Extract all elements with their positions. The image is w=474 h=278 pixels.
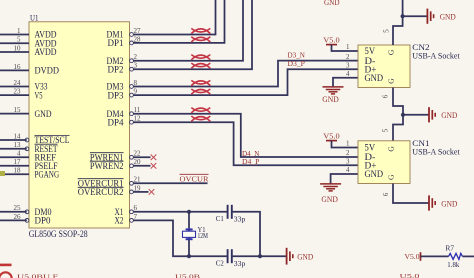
junction shield mid (401, 113, 405, 117)
wire CN2 shield pin5 to top GND (382, 0, 402, 45)
svg-text:5V: 5V (365, 143, 376, 153)
svg-text:OVCUR: OVCUR (180, 174, 209, 183)
crystal Y1 12M (183, 225, 209, 240)
svg-text:G: G (387, 146, 396, 152)
svg-text:6: 6 (382, 94, 390, 98)
wire V5.0 to CN2 pin1 (332, 45, 359, 51)
svg-text:GND: GND (322, 95, 339, 104)
wire GND p15 (0, 113, 29, 115)
wire OVERCUR1 / OVCUR (134, 182, 208, 184)
svg-text:12M: 12M (198, 231, 209, 240)
svg-text:1: 1 (346, 140, 350, 148)
wire C2 to GND (232, 255, 287, 257)
svg-text:5V: 5V (365, 46, 376, 56)
svg-text:GND: GND (365, 73, 384, 83)
svg-text:GND: GND (321, 195, 338, 204)
wire DM0 p25 (0, 211, 27, 213)
svg-text:33p: 33p (234, 259, 246, 268)
svg-text:DVDD: DVDD (35, 67, 60, 77)
svg-text:3: 3 (346, 158, 350, 166)
svg-text:D4_P: D4_P (242, 157, 259, 166)
svg-text:GND: GND (440, 13, 456, 22)
svg-text:1: 1 (346, 43, 350, 51)
svg-text:DP4: DP4 (108, 118, 124, 128)
net label stub PGANG (cropped) (0, 171, 5, 176)
cropped component bottom-left (0, 264, 12, 278)
svg-text:PWREN2: PWREN2 (90, 162, 124, 172)
power port V5.0 (CN2) (323, 35, 340, 44)
wire DP0 p26 (0, 219, 27, 221)
IC U1 GL850G SSOP-28 (14, 13, 142, 239)
power port V5.0 (CN1) (323, 131, 340, 140)
svg-text:GND: GND (441, 199, 457, 208)
connector CN1 USB-A Socket (346, 139, 460, 183)
svg-text:V5.0: V5.0 (323, 131, 340, 140)
wire V33 p24 (0, 86, 29, 88)
wire DP3 / D3_P to CN2 D+ (134, 69, 359, 95)
ferrite bead FB7 (191, 108, 210, 113)
svg-text:4: 4 (346, 166, 350, 174)
svg-text:AVDD: AVDD (35, 48, 57, 58)
cropped text bottom-left (17, 273, 59, 278)
wire DP4 / D4_P to CN1 D+ (134, 122, 359, 165)
ferrite bead FB1 (191, 28, 210, 33)
svg-text:U5.0BU F: U5.0BU F (17, 273, 59, 278)
ground GND top right (427, 9, 455, 24)
ferrite bead FB4 (191, 63, 210, 68)
svg-text:D3_P: D3_P (288, 59, 305, 68)
net label D3_N (288, 51, 306, 60)
svg-text:G: G (387, 49, 396, 55)
wire DP2 to top (134, 0, 253, 69)
junction shield top (401, 14, 405, 18)
wire C1 right (232, 212, 260, 256)
wire DM2 to top (134, 0, 244, 61)
wire to top-right GND (403, 15, 428, 17)
junction X2/Y1 (187, 254, 191, 258)
power label GND top (cropped) (324, 0, 340, 7)
ground GND mid right (429, 107, 457, 122)
wire crystal branch (188, 212, 190, 256)
svg-text:U1: U1 (30, 13, 39, 23)
wire CN1 pin6 shield to GND (382, 184, 429, 204)
wire R7 to right edge (463, 255, 474, 257)
svg-text:GND: GND (297, 253, 313, 262)
svg-text:DP1: DP1 (108, 39, 124, 49)
svg-text:6: 6 (382, 192, 390, 196)
capacitor C1 33p (216, 205, 246, 224)
wire DP1 to top (134, 0, 225, 43)
wire V5.0 to CN1 pin1 (332, 141, 359, 148)
wire DVDD p16 (0, 69, 29, 71)
wire TEST/SCL p14 (0, 139, 27, 141)
svg-text:PGANG: PGANG (35, 170, 60, 180)
svg-text:OVERCUR2: OVERCUR2 (78, 188, 124, 198)
net label D4_N (242, 149, 260, 158)
wire OVERCUR2 stub (134, 191, 149, 193)
svg-text:5: 5 (382, 128, 390, 132)
svg-text:X2: X2 (115, 217, 124, 227)
ground GND at crystal (287, 248, 314, 265)
svg-text:DP0: DP0 (35, 217, 51, 227)
wire CN2 pin4 to ground (333, 78, 358, 87)
wire DM4 / D4_N to CN1 D- (134, 114, 359, 157)
wire AVDD p1 (0, 34, 29, 36)
svg-text:DP2: DP2 (108, 65, 124, 75)
wire X1 to C1 (134, 211, 228, 213)
svg-text:G: G (387, 174, 396, 180)
svg-text:U5.0B: U5.0B (175, 274, 201, 278)
svg-text:1.8k: 1.8k (447, 260, 459, 269)
wire V5.0 to R7 (421, 255, 449, 257)
wire DM3 / D3_N to CN2 D- (134, 61, 359, 87)
junction C1/C2/GND (258, 254, 262, 258)
svg-text:USB-A Socket: USB-A Socket (412, 148, 460, 157)
svg-text:G: G (387, 78, 396, 84)
wire AVDD p10 (0, 51, 29, 53)
junction X1/Y1 (187, 210, 191, 214)
net label OVCUR (180, 174, 209, 183)
svg-text:V5: V5 (35, 91, 43, 101)
svg-text:C1: C1 (216, 214, 224, 223)
wire CN1 pin4 to ground (331, 174, 358, 184)
connector CN2 USB-A Socket (346, 43, 460, 88)
svg-text:DP3: DP3 (108, 91, 124, 101)
no-ERC mark PWREN2 (151, 163, 157, 169)
ferrite bead FB3 (191, 55, 210, 60)
svg-text:5: 5 (382, 29, 390, 33)
ferrite bead FB5 (191, 80, 210, 85)
svg-text:2: 2 (346, 149, 350, 157)
svg-text:3: 3 (346, 61, 350, 69)
svg-text:GND: GND (35, 110, 52, 120)
wire V5 p23 (0, 94, 29, 96)
svg-text:GL850G SSOP-28: GL850G SSOP-28 (29, 229, 88, 239)
wire to mid-right GND (403, 114, 429, 116)
svg-text:GND: GND (441, 111, 457, 120)
ferrite bead FB8 (191, 116, 210, 121)
ground GND bottom right (429, 195, 457, 210)
cropped text bottom-mid (175, 274, 201, 278)
svg-text:U5.0: U5.0 (400, 273, 420, 278)
ferrite bead FB2 (191, 37, 210, 42)
wire X2 jog down (134, 220, 228, 256)
svg-text:GND: GND (324, 0, 340, 7)
no-ERC mark OVERCUR2 (149, 189, 155, 195)
wire PWREN1 stub (134, 156, 151, 158)
wire PWREN2 stub (134, 165, 151, 167)
power port V5.0 (R7) (405, 252, 421, 261)
svg-text:GND: GND (365, 169, 384, 179)
wire RESET p13 (0, 148, 27, 150)
wire AVDD p5 (0, 42, 29, 44)
resistor R7 1.8k (446, 244, 463, 269)
no-ERC mark PWREN1 (151, 155, 157, 161)
svg-text:33p: 33p (234, 215, 246, 224)
svg-text:V5.0: V5.0 (323, 35, 340, 44)
wire PGANG p18 (0, 173, 29, 175)
wire PSELF p17 (0, 165, 29, 167)
net label D3_P (288, 59, 305, 68)
svg-text:R7: R7 (446, 244, 455, 253)
ferrite bead FB6 (191, 89, 210, 94)
svg-text:2: 2 (346, 53, 350, 61)
cropped text bottom-right (400, 273, 420, 278)
wire CN2 pin6 / CN1 pin5 shield (382, 88, 403, 141)
wire DM1 to top (134, 0, 216, 35)
net label D4_P (242, 157, 259, 166)
capacitor C2 33p (216, 249, 246, 268)
svg-text:USB-A Socket: USB-A Socket (412, 51, 460, 60)
svg-text:4: 4 (346, 70, 350, 78)
wire RREF p4 (0, 156, 29, 158)
svg-text:C2: C2 (216, 258, 224, 267)
svg-text:V5.0: V5.0 (405, 252, 420, 261)
